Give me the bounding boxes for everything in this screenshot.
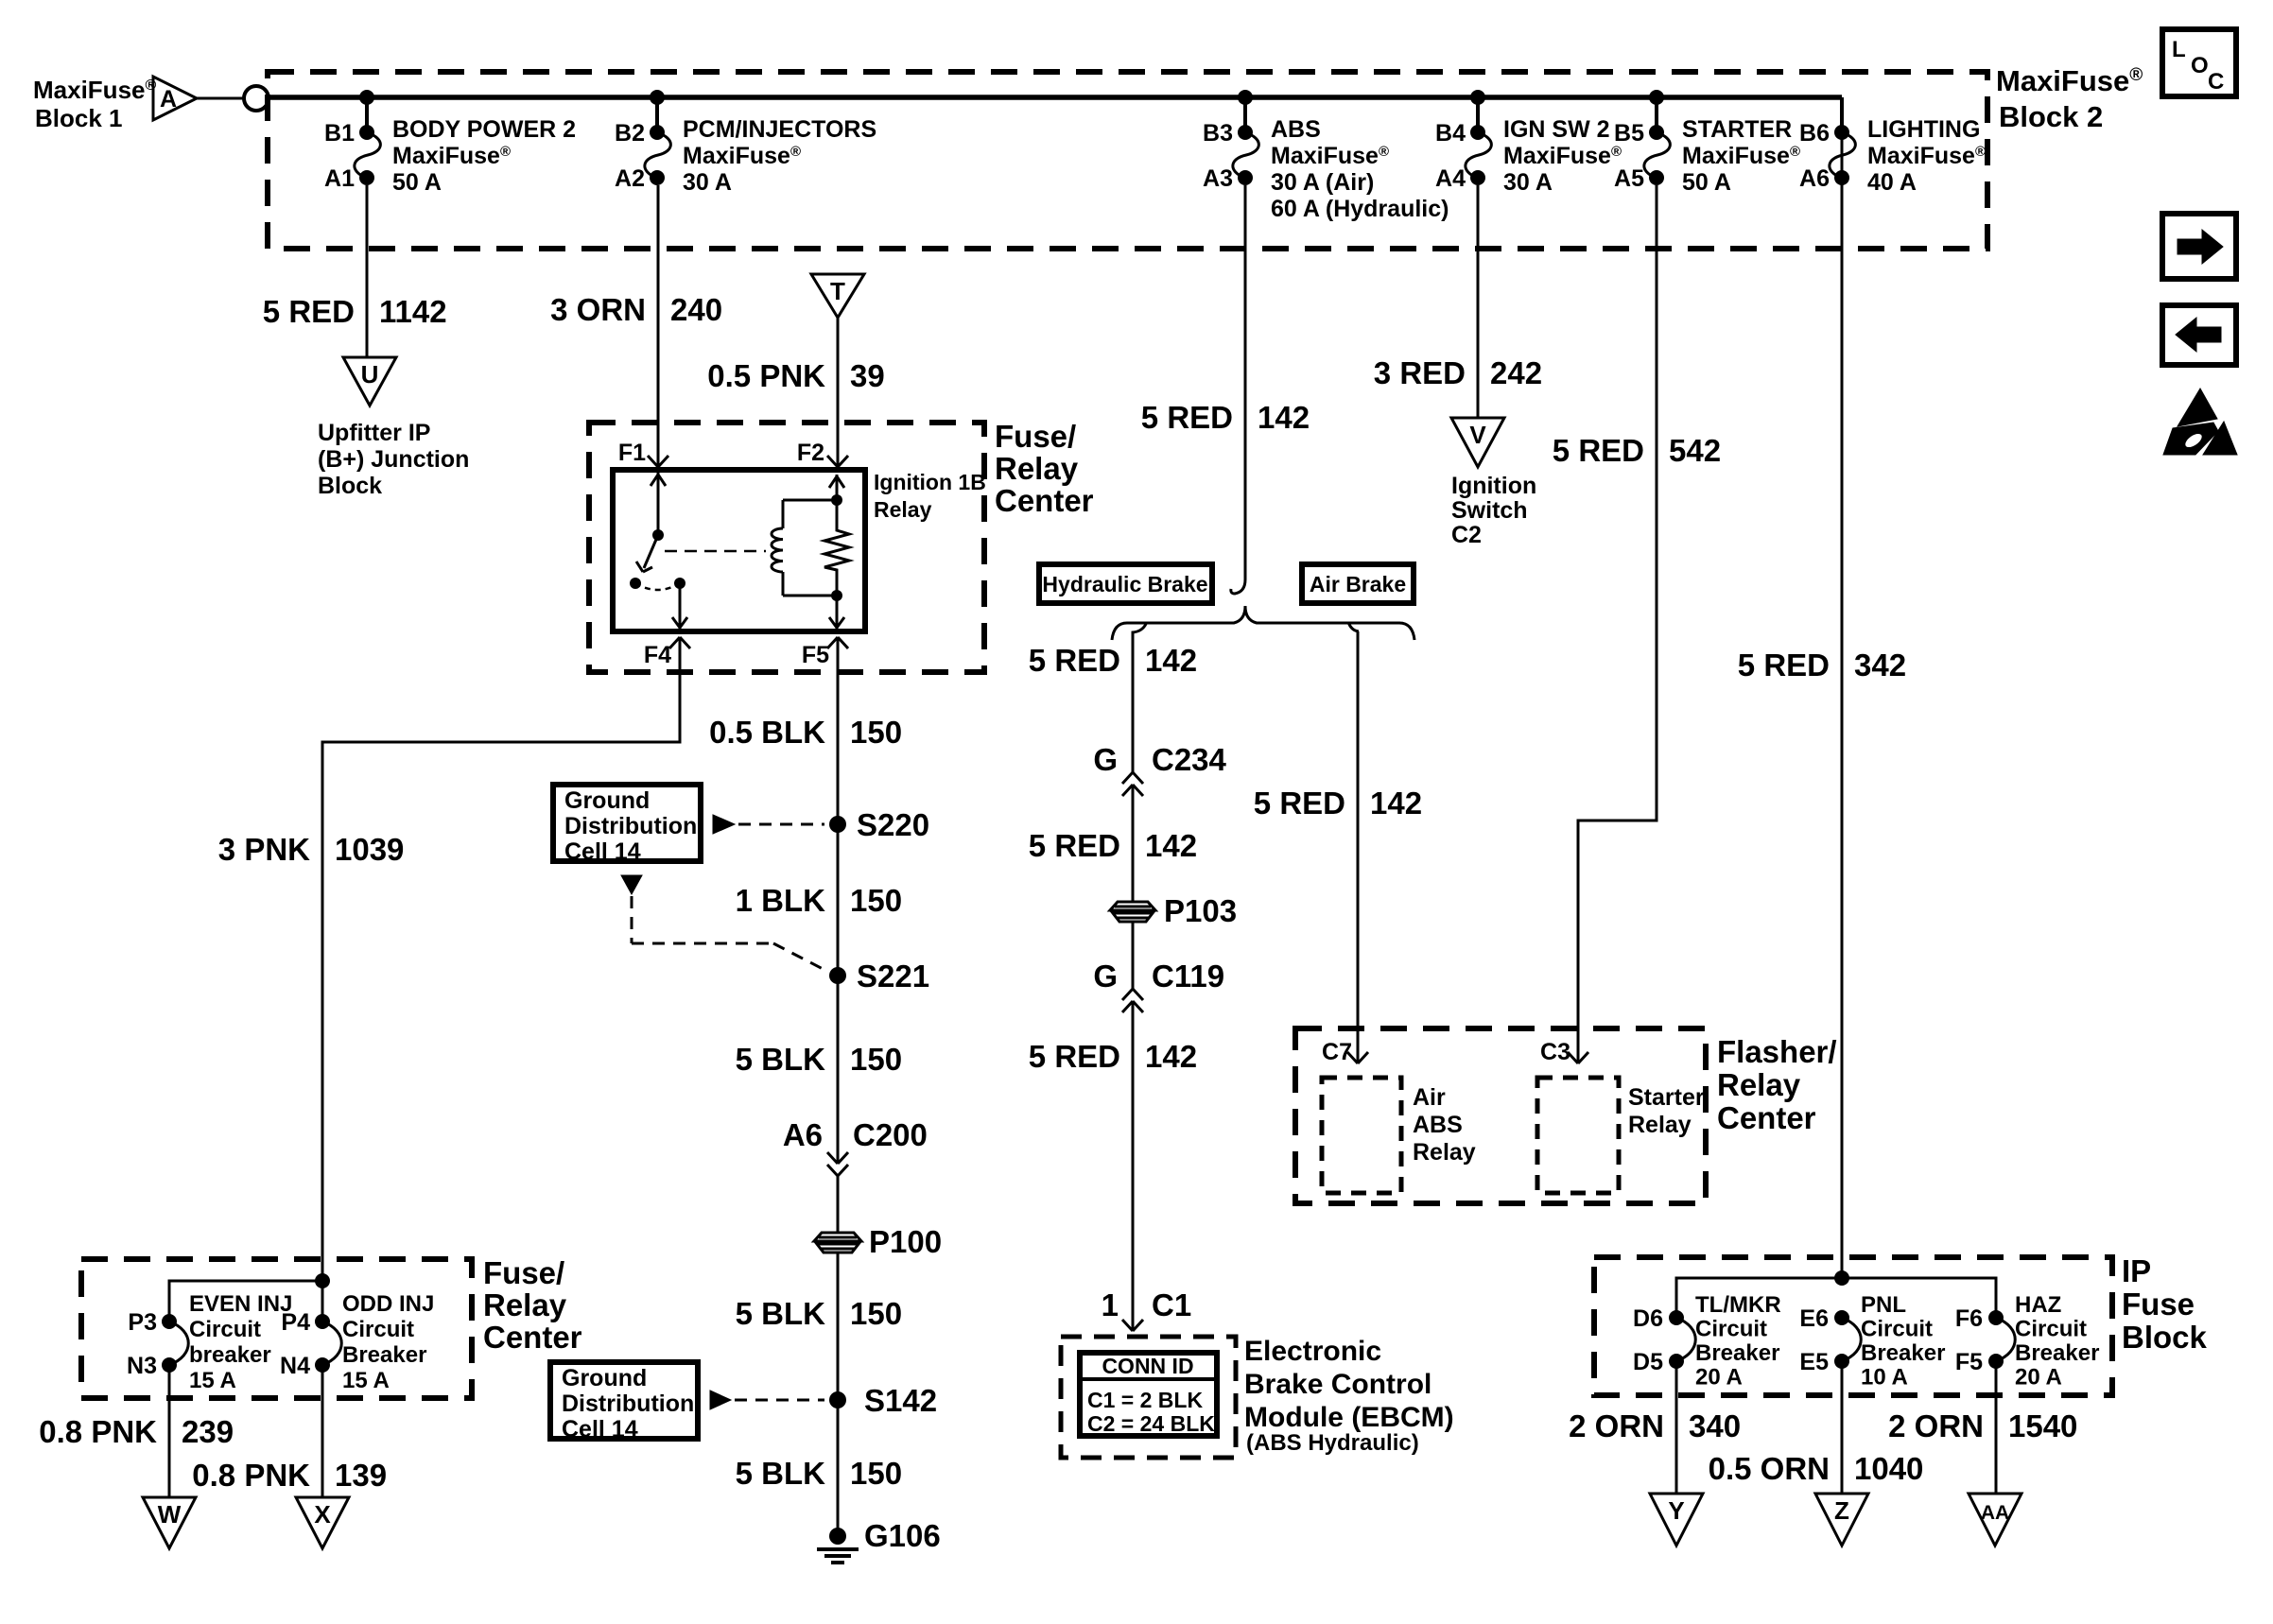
svg-text:C1 = 2 BLK: C1 = 2 BLK bbox=[1087, 1388, 1203, 1412]
svg-text:60 A (Hydraulic): 60 A (Hydraulic) bbox=[1271, 196, 1449, 222]
svg-text:S142: S142 bbox=[864, 1383, 937, 1418]
label 3 RED 242 bbox=[1374, 355, 1542, 390]
svg-text:Circuit: Circuit bbox=[342, 1317, 414, 1342]
svg-text:A3: A3 bbox=[1203, 165, 1233, 192]
dashed leader to S220 bbox=[713, 815, 824, 834]
wire to P100 bbox=[837, 1176, 840, 1232]
Fuse/Relay Center 2 dashed box bbox=[81, 1259, 472, 1398]
svg-text:5 RED: 5 RED bbox=[1738, 648, 1830, 682]
svg-text:F4: F4 bbox=[644, 642, 671, 668]
svg-text:5 RED: 5 RED bbox=[263, 294, 355, 329]
svg-text:P4: P4 bbox=[281, 1309, 310, 1336]
svg-text:MaxiFuse®: MaxiFuse® bbox=[1682, 143, 1800, 169]
EBCM dashed box bbox=[1061, 1337, 1236, 1458]
label 0.5 BLK 150 bbox=[709, 715, 902, 750]
svg-text:Block: Block bbox=[2122, 1320, 2208, 1355]
circuit breaker PNL pins E6/E5 bbox=[1799, 1292, 1945, 1494]
svg-text:breaker: breaker bbox=[189, 1342, 271, 1368]
svg-text:0.5 ORN: 0.5 ORN bbox=[1709, 1451, 1830, 1486]
svg-text:2 ORN: 2 ORN bbox=[1569, 1408, 1664, 1443]
svg-text:C3: C3 bbox=[1540, 1039, 1570, 1065]
svg-text:Fuse/: Fuse/ bbox=[483, 1255, 564, 1290]
svg-text:D6: D6 bbox=[1633, 1305, 1663, 1332]
grommet P100 bbox=[814, 1224, 942, 1259]
svg-text:IP: IP bbox=[2122, 1253, 2151, 1288]
label 5 RED 142 ABS bbox=[1141, 400, 1310, 435]
svg-text:B4: B4 bbox=[1435, 120, 1466, 147]
svg-text:HAZ: HAZ bbox=[2015, 1292, 2061, 1318]
split brace bbox=[1112, 606, 1414, 640]
svg-text:LIGHTING: LIGHTING bbox=[1867, 116, 1980, 143]
svg-text:TL/MKR: TL/MKR bbox=[1695, 1292, 1781, 1318]
label 5 BLK 150 upper bbox=[736, 1042, 902, 1077]
svg-text:C2 = 24 BLK: C2 = 24 BLK bbox=[1087, 1411, 1215, 1436]
svg-text:Breaker: Breaker bbox=[1861, 1340, 1945, 1366]
svg-text:142: 142 bbox=[1145, 828, 1197, 863]
pin C7 bbox=[1322, 1039, 1368, 1065]
svg-text:C1: C1 bbox=[1152, 1287, 1191, 1322]
label 0.5 PNK 39 bbox=[707, 358, 884, 393]
Fuse/Relay Center dashed box bbox=[589, 423, 984, 672]
circuit breaker HAZ pins F6/F5 bbox=[1955, 1292, 2100, 1494]
label 3 PNK 1039 bbox=[218, 832, 405, 867]
svg-text:MaxiFuse®: MaxiFuse® bbox=[1867, 143, 1986, 169]
svg-text:S221: S221 bbox=[857, 959, 929, 993]
label 5 BLK 150 lower bbox=[736, 1456, 902, 1491]
svg-text:5 RED: 5 RED bbox=[1141, 400, 1233, 435]
wire below P103 bbox=[1132, 922, 1135, 989]
svg-text:P3: P3 bbox=[128, 1309, 157, 1336]
svg-text:IGN SW 2: IGN SW 2 bbox=[1503, 116, 1610, 143]
label Ignition Switch C2 bbox=[1451, 473, 1536, 548]
relay pull-in dashed line bbox=[665, 550, 766, 553]
label 5 RED 1142 bbox=[263, 294, 447, 329]
label 5 RED 342 bbox=[1738, 648, 1906, 682]
wire 5 RED 142 from ABS fuse bbox=[1231, 185, 1245, 594]
svg-text:Relay: Relay bbox=[483, 1287, 567, 1322]
label Fuse/Relay Center 2 bbox=[483, 1255, 582, 1355]
main bus wire bbox=[269, 95, 1842, 100]
svg-text:542: 542 bbox=[1669, 433, 1721, 468]
svg-text:F5: F5 bbox=[802, 642, 829, 668]
svg-text:Brake Control: Brake Control bbox=[1244, 1369, 1431, 1400]
right arrow box bbox=[2162, 214, 2236, 279]
svg-text:150: 150 bbox=[850, 1456, 902, 1491]
label 0.8 PNK 139 bbox=[192, 1458, 387, 1493]
svg-text:V: V bbox=[1469, 421, 1486, 449]
pin F2 bbox=[797, 440, 848, 467]
svg-text:Circuit: Circuit bbox=[2015, 1317, 2087, 1342]
svg-text:A5: A5 bbox=[1614, 165, 1644, 192]
svg-text:Breaker: Breaker bbox=[2015, 1340, 2099, 1366]
svg-text:142: 142 bbox=[1370, 786, 1422, 821]
label Upfitter IP junction block bbox=[318, 420, 469, 499]
label 2 ORN 1540 bbox=[1888, 1408, 2077, 1443]
svg-text:D5: D5 bbox=[1633, 1349, 1663, 1375]
maxifuse BODY POWER 2 pins B1/A1 bbox=[324, 90, 576, 196]
svg-text:Block 1: Block 1 bbox=[35, 104, 123, 132]
svg-text:Z: Z bbox=[1834, 1496, 1849, 1525]
svg-text:A: A bbox=[160, 86, 177, 112]
svg-text:T: T bbox=[830, 277, 845, 305]
pin F5 bbox=[802, 637, 848, 668]
label 5 RED 142 air bbox=[1254, 786, 1422, 821]
svg-text:1039: 1039 bbox=[335, 832, 404, 867]
maxifuse ABS pins B3/A3 bbox=[1203, 90, 1449, 222]
svg-text:PNL: PNL bbox=[1861, 1292, 1906, 1318]
label 2 ORN 340 bbox=[1569, 1408, 1741, 1443]
connector triangle Y bbox=[1650, 1494, 1703, 1546]
svg-text:Module (EBCM): Module (EBCM) bbox=[1244, 1402, 1454, 1433]
svg-text:2 ORN: 2 ORN bbox=[1888, 1408, 1984, 1443]
svg-text:5 RED: 5 RED bbox=[1553, 433, 1644, 468]
svg-text:ABS: ABS bbox=[1413, 1112, 1463, 1138]
svg-text:Center: Center bbox=[1717, 1100, 1816, 1135]
svg-text:Cell 14: Cell 14 bbox=[562, 1416, 638, 1443]
connector triangle T bbox=[811, 274, 864, 318]
svg-text:B3: B3 bbox=[1203, 120, 1233, 147]
svg-text:S220: S220 bbox=[857, 807, 929, 842]
svg-text:A4: A4 bbox=[1435, 165, 1466, 192]
svg-text:B2: B2 bbox=[615, 120, 645, 147]
wire 5 RED 342 bbox=[1841, 132, 1844, 1278]
grommet P103 bbox=[1110, 893, 1237, 928]
relay switch output bbox=[672, 578, 687, 630]
svg-text:(B+) Junction: (B+) Junction bbox=[318, 446, 469, 473]
svg-text:15 A: 15 A bbox=[342, 1368, 390, 1393]
svg-text:30 A: 30 A bbox=[1503, 169, 1553, 196]
svg-text:Switch: Switch bbox=[1451, 497, 1528, 524]
relay switch bbox=[630, 473, 666, 589]
label Ignition 1B Relay bbox=[874, 470, 986, 522]
label G C234 bbox=[1093, 742, 1226, 777]
dashed leader to S221 bbox=[621, 875, 828, 972]
svg-text:G: G bbox=[1093, 959, 1118, 993]
maxifuse PCM/INJECTORS pins B2/A2 bbox=[615, 90, 876, 196]
wire 5 RED 142 to EBCM bbox=[1132, 1001, 1135, 1331]
svg-text:1142: 1142 bbox=[379, 294, 447, 329]
svg-text:Distribution: Distribution bbox=[564, 813, 697, 839]
label 5 BLK 150 middle bbox=[736, 1296, 902, 1331]
svg-text:MaxiFuse®: MaxiFuse® bbox=[1271, 143, 1389, 169]
svg-text:1040: 1040 bbox=[1854, 1451, 1923, 1486]
label A6 C200 bbox=[783, 1117, 928, 1152]
wire 5 BLK 150 middle bbox=[837, 1253, 840, 1400]
svg-text:AA: AA bbox=[1981, 1502, 2009, 1524]
circuit breaker EVEN INJ pins P3/N3 bbox=[127, 1291, 292, 1497]
pin F4 bbox=[644, 637, 690, 668]
svg-text:E6: E6 bbox=[1799, 1305, 1829, 1332]
svg-text:Upfitter IP: Upfitter IP bbox=[318, 420, 430, 446]
label 0.8 PNK 239 bbox=[39, 1414, 234, 1449]
svg-text:10 A: 10 A bbox=[1861, 1365, 1908, 1391]
IP fuse block rail bbox=[1676, 1270, 1996, 1318]
svg-text:Block 2: Block 2 bbox=[1999, 100, 2103, 133]
svg-text:MaxiFuse®: MaxiFuse® bbox=[1503, 143, 1622, 169]
svg-text:C2: C2 bbox=[1451, 522, 1482, 548]
svg-text:Breaker: Breaker bbox=[342, 1342, 426, 1368]
maxifuse LIGHTING pins B6/A6 bbox=[1799, 97, 1986, 196]
svg-text:1: 1 bbox=[1102, 1287, 1119, 1322]
wire 5 BLK 150 upper bbox=[837, 976, 840, 1164]
svg-text:W: W bbox=[158, 1500, 182, 1529]
svg-text:L: L bbox=[2172, 37, 2186, 62]
label 0.5 ORN 1040 bbox=[1709, 1451, 1924, 1486]
svg-text:CONN ID: CONN ID bbox=[1102, 1354, 1193, 1378]
splice S220 bbox=[829, 807, 929, 842]
connector triangle W bbox=[143, 1497, 196, 1548]
svg-text:50 A: 50 A bbox=[392, 169, 442, 196]
svg-text:5 BLK: 5 BLK bbox=[736, 1042, 826, 1077]
label 5 RED 142 hydraulic upper bbox=[1029, 643, 1197, 678]
svg-text:Y: Y bbox=[1668, 1496, 1684, 1525]
svg-text:342: 342 bbox=[1854, 648, 1906, 682]
label box Air Brake bbox=[1302, 564, 1414, 603]
pin C3 bbox=[1540, 1039, 1588, 1065]
svg-text:X: X bbox=[314, 1500, 331, 1529]
relay switch contact dashed arc bbox=[635, 583, 680, 590]
breaker feed wires bbox=[169, 1273, 330, 1322]
svg-text:F6: F6 bbox=[1955, 1305, 1983, 1332]
svg-text:240: 240 bbox=[670, 292, 722, 327]
svg-text:N4: N4 bbox=[280, 1353, 310, 1379]
wire hydraulic branch upper bbox=[1133, 624, 1146, 772]
svg-text:E5: E5 bbox=[1799, 1349, 1829, 1375]
svg-text:B1: B1 bbox=[324, 120, 355, 147]
svg-text:F5: F5 bbox=[1955, 1349, 1983, 1375]
svg-text:142: 142 bbox=[1258, 400, 1310, 435]
svg-text:Distribution: Distribution bbox=[562, 1391, 694, 1417]
svg-text:A2: A2 bbox=[615, 165, 645, 192]
svg-text:B6: B6 bbox=[1799, 120, 1830, 147]
svg-text:Ground: Ground bbox=[562, 1365, 647, 1391]
connector triangle U bbox=[343, 357, 396, 406]
svg-text:BODY POWER 2: BODY POWER 2 bbox=[392, 116, 576, 143]
svg-text:Hydraulic Brake: Hydraulic Brake bbox=[1042, 572, 1207, 596]
wire 5 RED 542 to C3 bbox=[1578, 185, 1657, 1063]
connector triangle V bbox=[1451, 418, 1504, 467]
svg-text:139: 139 bbox=[335, 1458, 387, 1493]
label Electronic Brake Control Module bbox=[1244, 1336, 1454, 1456]
svg-text:15 A: 15 A bbox=[189, 1368, 236, 1393]
maxifuse STARTER pins B5/A5 bbox=[1614, 90, 1800, 196]
svg-text:Air Brake: Air Brake bbox=[1310, 572, 1406, 596]
connector triangle AA bbox=[1969, 1494, 2021, 1546]
svg-text:150: 150 bbox=[850, 883, 902, 918]
splice S221 bbox=[829, 959, 929, 993]
svg-text:A6: A6 bbox=[783, 1117, 823, 1152]
circuit breaker ODD INJ pins P4/N4 bbox=[280, 1291, 434, 1497]
svg-text:PCM/INJECTORS: PCM/INJECTORS bbox=[683, 116, 876, 143]
svg-text:A1: A1 bbox=[324, 165, 355, 192]
svg-text:5 RED: 5 RED bbox=[1029, 828, 1120, 863]
svg-text:C119: C119 bbox=[1152, 959, 1224, 993]
svg-text:MaxiFuse®: MaxiFuse® bbox=[1996, 64, 2143, 97]
circuit breaker TL/MKR pins D6/D5 bbox=[1633, 1292, 1781, 1494]
svg-text:N3: N3 bbox=[127, 1353, 157, 1379]
splice circle bbox=[244, 86, 269, 111]
svg-text:G: G bbox=[1093, 742, 1118, 777]
svg-text:0.5 BLK: 0.5 BLK bbox=[709, 715, 825, 750]
wire F4 to EVEN/ODD INJ breakers bbox=[322, 637, 680, 1281]
wire from A to splice circle bbox=[197, 97, 244, 100]
svg-text:20 A: 20 A bbox=[2015, 1365, 2062, 1391]
svg-text:Breaker: Breaker bbox=[1695, 1340, 1779, 1366]
IP Fuse Block dashed box bbox=[1594, 1257, 2112, 1395]
svg-text:(ABS Hydraulic): (ABS Hydraulic) bbox=[1246, 1430, 1419, 1456]
svg-text:150: 150 bbox=[850, 1296, 902, 1331]
label Fuse/Relay Center bbox=[995, 419, 1094, 518]
svg-text:ODD INJ: ODD INJ bbox=[342, 1291, 434, 1317]
ground G106 bbox=[817, 1518, 941, 1563]
svg-text:5 RED: 5 RED bbox=[1029, 643, 1120, 678]
svg-text:Cell 14: Cell 14 bbox=[564, 838, 641, 865]
label IP Fuse Block bbox=[2122, 1253, 2208, 1355]
Ground Distribution Cell 14 box lower bbox=[550, 1362, 698, 1443]
label 5 RED 542 bbox=[1553, 433, 1721, 468]
CONN ID table bbox=[1080, 1353, 1217, 1436]
svg-text:P103: P103 bbox=[1164, 893, 1237, 928]
maxifuse IGN SW 2 pins B4/A4 bbox=[1435, 90, 1622, 196]
Ground Distribution Cell 14 box upper bbox=[553, 785, 701, 865]
svg-text:MaxiFuse®: MaxiFuse® bbox=[392, 143, 511, 169]
label MaxiFuse Block 2 bbox=[1996, 64, 2143, 133]
svg-text:142: 142 bbox=[1145, 643, 1197, 678]
svg-text:P100: P100 bbox=[869, 1224, 942, 1259]
svg-text:Relay: Relay bbox=[1413, 1139, 1476, 1166]
svg-text:Ignition: Ignition bbox=[1451, 473, 1536, 499]
svg-text:150: 150 bbox=[850, 1042, 902, 1077]
svg-text:5 BLK: 5 BLK bbox=[736, 1296, 826, 1331]
svg-text:Circuit: Circuit bbox=[189, 1317, 261, 1342]
label G C119 bbox=[1093, 959, 1224, 993]
wire air branch bbox=[1348, 622, 1359, 1063]
svg-text:C: C bbox=[2208, 69, 2224, 95]
label 5 RED 142 hydraulic middle bbox=[1029, 828, 1197, 863]
svg-text:U: U bbox=[361, 360, 379, 389]
Flasher/Relay Center dashed box bbox=[1295, 1028, 1706, 1203]
dashed leader to S142 bbox=[710, 1391, 824, 1409]
label 5 RED 142 lower bbox=[1029, 1039, 1197, 1074]
svg-text:B5: B5 bbox=[1614, 120, 1644, 147]
connector triangle X bbox=[296, 1497, 349, 1548]
wire 5 RED 1142 bbox=[366, 185, 369, 357]
svg-text:3 RED: 3 RED bbox=[1374, 355, 1466, 390]
Starter Relay dashed box bbox=[1537, 1078, 1705, 1193]
svg-text:0.5 PNK: 0.5 PNK bbox=[707, 358, 825, 393]
svg-text:O: O bbox=[2191, 53, 2209, 78]
svg-text:142: 142 bbox=[1145, 1039, 1197, 1074]
svg-text:Relay: Relay bbox=[1717, 1067, 1801, 1102]
svg-text:Relay: Relay bbox=[874, 497, 932, 522]
connector C200 bbox=[827, 1152, 848, 1176]
svg-text:340: 340 bbox=[1689, 1408, 1741, 1443]
connector C234 bbox=[1122, 772, 1143, 796]
relay resistor bbox=[824, 475, 849, 630]
svg-text:Ground: Ground bbox=[564, 787, 650, 814]
pin 1 C1 bbox=[1102, 1287, 1192, 1331]
svg-text:F2: F2 bbox=[797, 440, 824, 466]
label box Hydraulic Brake bbox=[1039, 564, 1212, 603]
wire 0.5 PNK 39 bbox=[837, 318, 840, 466]
svg-text:5 RED: 5 RED bbox=[1029, 1039, 1120, 1074]
Air ABS Relay dashed box bbox=[1322, 1078, 1476, 1193]
relay coil bbox=[772, 494, 842, 596]
svg-text:MaxiFuse®: MaxiFuse® bbox=[683, 143, 801, 169]
svg-text:5 BLK: 5 BLK bbox=[736, 1456, 826, 1491]
svg-text:150: 150 bbox=[850, 715, 902, 750]
svg-text:Electronic: Electronic bbox=[1244, 1336, 1381, 1367]
svg-text:Air: Air bbox=[1413, 1084, 1446, 1111]
svg-text:1540: 1540 bbox=[2008, 1408, 2077, 1443]
wire 3 ORN 240 bbox=[657, 185, 660, 466]
wire 5 RED 142 hydraulic middle bbox=[1132, 785, 1135, 901]
ESD warning symbol bbox=[2163, 389, 2237, 455]
MaxiFuse Block 2 dashed box bbox=[268, 72, 1987, 249]
wire 1 BLK 150 bbox=[837, 824, 840, 976]
svg-text:C200: C200 bbox=[853, 1117, 928, 1152]
svg-text:3 PNK: 3 PNK bbox=[218, 832, 310, 867]
connector C119 bbox=[1122, 989, 1143, 1012]
svg-text:0.8 PNK: 0.8 PNK bbox=[39, 1414, 157, 1449]
splice S142 bbox=[829, 1383, 937, 1418]
wire 3 RED 242 bbox=[1477, 185, 1480, 418]
svg-text:39: 39 bbox=[850, 358, 885, 393]
connector triangle Z bbox=[1815, 1494, 1868, 1546]
svg-text:30 A (Air): 30 A (Air) bbox=[1271, 169, 1374, 196]
svg-text:Ignition 1B: Ignition 1B bbox=[874, 470, 986, 494]
svg-text:Relay: Relay bbox=[1628, 1112, 1692, 1138]
svg-text:Circuit: Circuit bbox=[1695, 1317, 1767, 1342]
svg-text:G106: G106 bbox=[864, 1518, 941, 1553]
svg-text:5 RED: 5 RED bbox=[1254, 786, 1345, 821]
svg-text:Center: Center bbox=[995, 483, 1094, 518]
svg-text:EVEN INJ: EVEN INJ bbox=[189, 1291, 292, 1317]
connector triangle A bbox=[153, 77, 197, 120]
svg-text:20 A: 20 A bbox=[1695, 1365, 1743, 1391]
svg-text:Center: Center bbox=[483, 1320, 582, 1355]
svg-text:Flasher/: Flasher/ bbox=[1717, 1034, 1837, 1069]
svg-text:3 ORN: 3 ORN bbox=[550, 292, 646, 327]
svg-text:MaxiFuse®: MaxiFuse® bbox=[33, 76, 157, 104]
svg-text:50 A: 50 A bbox=[1682, 169, 1731, 196]
wire 0.5 BLK 150 bbox=[837, 637, 840, 824]
label MaxiFuse Block 1 bbox=[33, 76, 157, 132]
svg-text:239: 239 bbox=[182, 1414, 234, 1449]
svg-text:Circuit: Circuit bbox=[1861, 1317, 1933, 1342]
svg-text:Fuse: Fuse bbox=[2122, 1287, 2195, 1322]
svg-text:STARTER: STARTER bbox=[1682, 116, 1792, 143]
wire 5 BLK 150 lower bbox=[837, 1400, 840, 1536]
svg-text:A6: A6 bbox=[1799, 165, 1830, 192]
svg-text:ABS: ABS bbox=[1271, 116, 1321, 143]
svg-text:1 BLK: 1 BLK bbox=[736, 883, 826, 918]
svg-text:30 A: 30 A bbox=[683, 169, 732, 196]
left arrow box bbox=[2162, 305, 2236, 365]
svg-text:F1: F1 bbox=[618, 440, 646, 466]
svg-text:40 A: 40 A bbox=[1867, 169, 1917, 196]
svg-text:0.8 PNK: 0.8 PNK bbox=[192, 1458, 310, 1493]
label Flasher/Relay Center bbox=[1717, 1034, 1837, 1135]
relay Ignition 1B box bbox=[613, 470, 865, 631]
LOC reference box bbox=[2162, 29, 2236, 96]
svg-text:Fuse/: Fuse/ bbox=[995, 419, 1076, 454]
label 3 ORN 240 bbox=[550, 292, 722, 327]
label 1 BLK 150 bbox=[736, 883, 902, 918]
svg-text:Block: Block bbox=[318, 473, 382, 499]
svg-text:242: 242 bbox=[1490, 355, 1542, 390]
pin F1 bbox=[618, 440, 668, 467]
